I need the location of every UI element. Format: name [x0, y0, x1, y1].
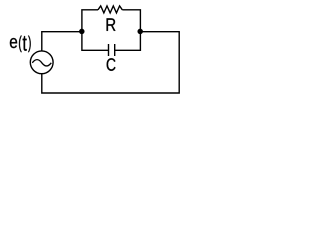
label C: [107, 58, 116, 71]
node B (right junction dot): [137, 29, 143, 35]
voltage source e(t) circle: [30, 51, 53, 74]
wire capacitor to right node: [115, 32, 141, 51]
wire left node down to capacitor: [82, 32, 109, 51]
label e(t): [10, 36, 31, 53]
wire left rail up to resistor: [82, 10, 98, 32]
wire resistor to right rail: [122, 10, 140, 32]
label R: [107, 18, 116, 30]
capacitor C left plate: [108, 44, 110, 56]
wire source top to left node: [42, 32, 82, 51]
wire right node to outer loop and bottom return: [42, 32, 179, 93]
node A (left junction dot): [79, 29, 85, 35]
capacitor C right plate: [114, 44, 116, 56]
resistor R: [98, 6, 122, 13]
voltage source sine wave: [32, 60, 51, 66]
